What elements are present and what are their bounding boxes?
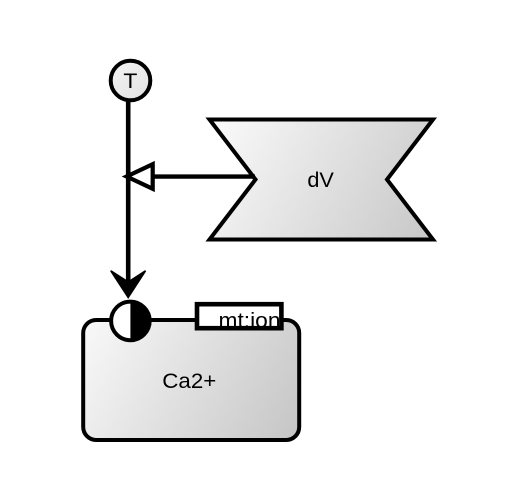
svg-text:Ca2+: Ca2+ — [162, 370, 216, 393]
svg-text:T: T — [123, 70, 137, 93]
wire horizontal stimulation arc from dV — [152, 174, 255, 178]
unit of information mt:ion — [197, 304, 281, 332]
consumption arrowhead (filled stealth arrow) — [111, 271, 146, 298]
entity pool Ca2+ (rounded rectangle) — [83, 320, 299, 440]
state circle (half black, half white) on Ca2+ — [111, 302, 150, 341]
stimulation arrowhead (open triangle) — [127, 164, 153, 189]
tag T (circle with T) — [111, 61, 151, 101]
svg-text:mt:ion: mt:ion — [219, 309, 281, 332]
svg-text:dV: dV — [307, 169, 334, 192]
wire vertical arc from tag T to Ca2+ — [126, 100, 131, 288]
perturbing agent dV — [210, 120, 434, 240]
